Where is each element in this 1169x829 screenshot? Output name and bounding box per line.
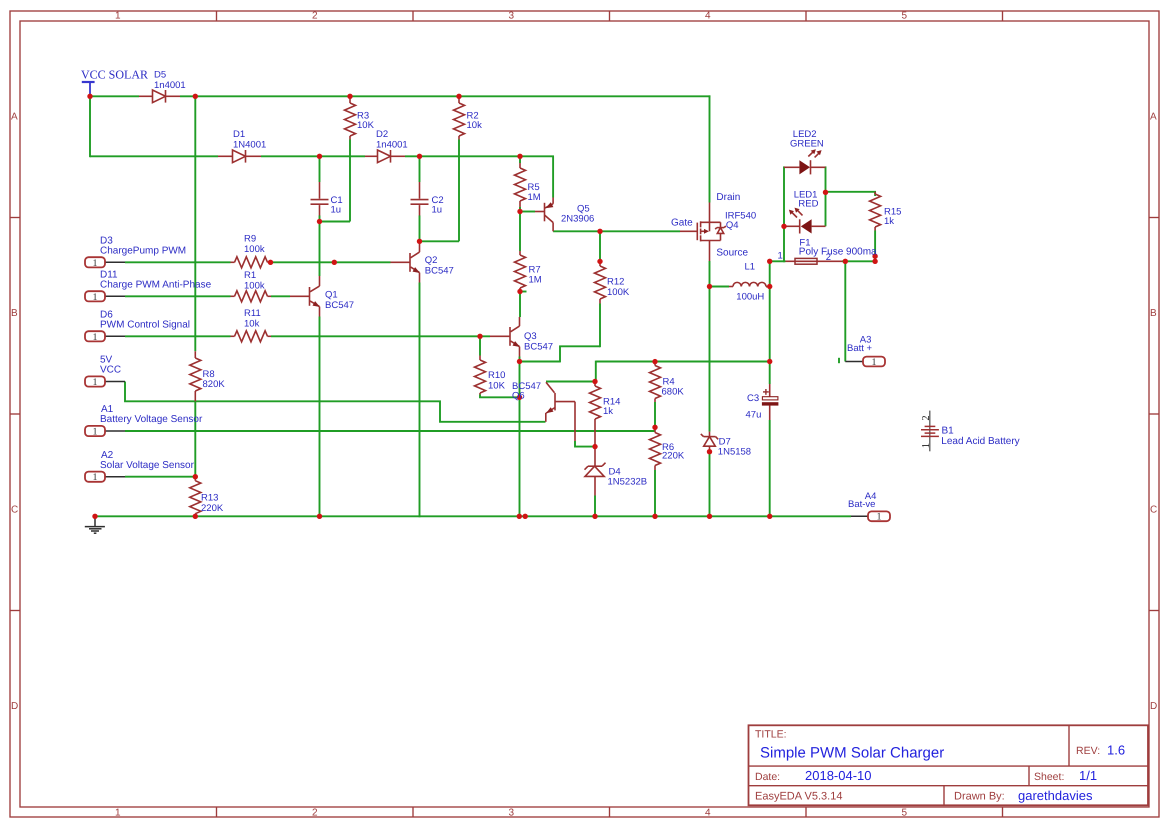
transistor Q2	[391, 241, 421, 282]
transistor Q3	[490, 317, 520, 357]
svg-text:R9: R9	[244, 234, 256, 245]
wire A1 run	[125, 430, 655, 432]
label C2	[432, 195, 444, 216]
LED1 red	[784, 208, 826, 234]
svg-text:1M: 1M	[528, 192, 541, 203]
label R15	[884, 206, 901, 227]
svg-text:5: 5	[902, 10, 908, 21]
wire Q6 base link	[575, 441, 595, 447]
label R11	[244, 308, 261, 329]
node R5 bottom Q5 base	[517, 209, 522, 214]
label Gate	[671, 217, 693, 228]
resistor R13	[190, 477, 201, 517]
wire fuse rail right	[842, 260, 875, 262]
resistor R11	[231, 331, 272, 342]
node D7 bottom	[707, 449, 712, 454]
svg-text:RED: RED	[798, 199, 818, 210]
wire second rail seg2	[261, 155, 365, 157]
node rail D4	[592, 514, 597, 519]
svg-text:10K: 10K	[357, 120, 375, 131]
label R7	[529, 265, 542, 286]
svg-text:D5: D5	[154, 70, 166, 81]
wire R14 top vertical	[595, 361, 597, 382]
svg-text:Drain: Drain	[716, 192, 740, 203]
net label VCC SOLAR	[81, 68, 148, 82]
wire R10 stub top	[479, 336, 481, 355]
resistor R12	[595, 262, 606, 304]
capacitor C3 polarized	[762, 384, 779, 420]
port A2	[85, 472, 125, 484]
svg-text:1/1: 1/1	[1079, 768, 1097, 783]
node R9 out	[268, 260, 273, 265]
svg-text:1M: 1M	[529, 275, 542, 286]
label R9	[244, 234, 265, 256]
node R15 bottom upper	[872, 254, 877, 259]
wire R7 stub	[520, 291, 527, 293]
capacitor C1	[311, 182, 329, 222]
label A4 port	[848, 491, 876, 510]
label C1	[331, 195, 343, 216]
port A3	[845, 357, 885, 368]
svg-text:1: 1	[93, 377, 98, 388]
port D11	[85, 291, 125, 303]
transistor Q1	[290, 276, 320, 317]
node R4 top	[652, 359, 657, 364]
pin number B1-1	[921, 443, 932, 448]
wire D7 bottom	[709, 454, 711, 517]
node rail R13	[193, 514, 198, 519]
node LED1 left	[781, 224, 786, 229]
node R5 top	[517, 154, 522, 159]
svg-text:100k: 100k	[244, 244, 265, 255]
wire source column to D7	[709, 287, 711, 432]
svg-text:1n4001: 1n4001	[376, 139, 408, 150]
TITLEBLOCK	[749, 725, 1149, 805]
label C3	[746, 393, 762, 421]
wire node row y361	[596, 361, 770, 363]
wire Q3 emitter column	[519, 357, 521, 518]
resistor R9	[231, 257, 271, 268]
svg-text:1N5158: 1N5158	[718, 447, 751, 458]
wire R6 bottom	[654, 470, 656, 517]
wire Q4 source	[709, 261, 711, 287]
svg-text:2: 2	[312, 807, 318, 818]
resistor R6	[650, 427, 661, 470]
resistor R8	[190, 351, 201, 401]
wire second rail seg3	[405, 155, 554, 157]
svg-text:garethdavies: garethdavies	[1018, 788, 1093, 803]
svg-text:3: 3	[509, 807, 515, 818]
svg-text:GREEN: GREEN	[790, 139, 824, 150]
svg-text:820K: 820K	[203, 379, 226, 390]
svg-text:4: 4	[705, 10, 711, 21]
node R2 top	[456, 94, 461, 99]
resistor R2	[454, 96, 465, 139]
capacitor C2	[411, 182, 429, 241]
svg-text:D: D	[11, 701, 18, 712]
wire R2 column	[458, 140, 460, 242]
svg-text:REV:: REV:	[1076, 745, 1100, 757]
wire A3 pin tick	[838, 358, 840, 363]
wire Q5 base link	[520, 211, 535, 213]
svg-text:VCC: VCC	[100, 365, 121, 376]
wire x195 column upper	[194, 96, 196, 351]
wire LED left column	[783, 166, 785, 262]
pin number F1-1	[778, 251, 783, 262]
label D7	[718, 436, 751, 457]
wire R12 bottom	[599, 304, 601, 348]
wire source to L1	[710, 286, 730, 288]
port A4	[851, 511, 890, 522]
svg-text:Poly Fuse 900ma: Poly Fuse 900ma	[799, 247, 877, 258]
svg-text:Q2: Q2	[425, 255, 438, 266]
label R8	[203, 369, 226, 390]
svg-text:BC547: BC547	[425, 266, 454, 277]
node R3 top	[347, 94, 352, 99]
zener diode D7	[701, 432, 718, 454]
label A2 port	[100, 450, 195, 471]
resistor R7	[515, 251, 526, 292]
svg-text:5: 5	[902, 807, 908, 818]
port D3	[85, 257, 125, 269]
svg-text:B: B	[11, 308, 18, 319]
wire R12 jog horizontal	[559, 345, 600, 347]
label LED2	[790, 129, 824, 150]
node Q3 emitter	[517, 359, 522, 364]
wire Q6 collector run	[546, 381, 596, 383]
wire fuse rail left	[770, 260, 786, 262]
svg-text:1: 1	[877, 512, 882, 523]
svg-text:R13: R13	[201, 493, 218, 504]
svg-text:Bat-ve: Bat-ve	[848, 499, 875, 510]
node fuse left	[767, 259, 772, 264]
node D3 row mid	[332, 260, 337, 265]
node rail C3	[767, 514, 772, 519]
svg-text:1: 1	[115, 807, 121, 818]
label R5	[528, 182, 541, 203]
label R3	[357, 110, 375, 131]
wire L1 right lead	[766, 286, 770, 288]
svg-text:Simple PWM Solar Charger: Simple PWM Solar Charger	[760, 745, 944, 762]
svg-text:2: 2	[312, 10, 318, 21]
svg-text:1: 1	[778, 251, 783, 262]
svg-text:PWM Control Signal: PWM Control Signal	[100, 320, 190, 331]
resistor R3	[345, 96, 356, 139]
node C1 top	[317, 154, 322, 159]
node LED2 right	[823, 190, 828, 195]
node rail x519	[517, 514, 522, 519]
transistor Q5	[535, 198, 553, 232]
svg-text:Q6: Q6	[512, 391, 525, 402]
label R2	[467, 110, 483, 131]
svg-text:C: C	[1150, 505, 1157, 516]
svg-text:Gate: Gate	[671, 217, 693, 228]
svg-text:1u: 1u	[331, 205, 342, 216]
label Q1	[325, 290, 354, 312]
label D3 port	[100, 236, 186, 257]
wire R15 bottom	[874, 231, 876, 262]
label D4	[608, 467, 648, 488]
svg-text:TITLE:: TITLE:	[755, 729, 787, 741]
wire A2 run	[125, 476, 195, 478]
resistor R15	[870, 192, 881, 231]
wire second rail seg1	[90, 155, 218, 157]
svg-text:B1: B1	[942, 425, 955, 436]
LED2 green	[784, 149, 826, 174]
wire top rail right	[180, 95, 710, 97]
svg-text:C3: C3	[747, 393, 759, 404]
wire x195 column lower	[194, 401, 196, 476]
wire bottom rail	[95, 515, 851, 517]
node R14 top	[592, 379, 597, 384]
wire top rail left	[90, 95, 139, 97]
svg-text:2018-04-10: 2018-04-10	[805, 768, 872, 783]
wire C1 link to R3	[320, 221, 351, 223]
svg-text:100K: 100K	[607, 287, 630, 298]
svg-text:1: 1	[93, 332, 98, 343]
label R6	[662, 442, 685, 462]
svg-text:47u: 47u	[746, 410, 762, 421]
port A1	[85, 426, 125, 438]
diode D5	[139, 90, 180, 103]
node C1 bottom	[317, 219, 322, 224]
node rail R6	[652, 514, 657, 519]
wire LED right column	[825, 166, 827, 226]
wire R12 jog vertical	[559, 346, 561, 362]
node R14 D4	[592, 444, 597, 449]
resistor R10	[475, 356, 486, 395]
label B1	[941, 425, 1019, 447]
label VCC port	[100, 355, 121, 376]
wire R5 bottom	[519, 207, 521, 212]
node rail x320	[317, 514, 322, 519]
svg-text:2: 2	[826, 252, 831, 263]
label R4	[662, 377, 685, 398]
svg-text:A: A	[11, 111, 18, 122]
svg-text:1.6: 1.6	[1107, 743, 1125, 758]
svg-text:1: 1	[921, 443, 932, 448]
resistor R5	[515, 163, 526, 207]
node VCC SOLAR junction	[87, 94, 92, 99]
node C2 top	[417, 154, 422, 159]
port D6	[85, 331, 125, 343]
svg-text:2: 2	[921, 415, 932, 420]
node R12 top pin	[597, 259, 602, 264]
wire VCC 5V run	[125, 382, 546, 422]
zener diode D4	[585, 447, 606, 496]
power flag VCC SOLAR	[82, 82, 95, 96]
svg-text:Q3: Q3	[524, 331, 537, 342]
wire R5 top lead	[519, 156, 521, 163]
wire Q1 emitter column	[319, 317, 321, 518]
svg-text:10k: 10k	[467, 120, 483, 131]
svg-text:Q4: Q4	[726, 220, 739, 231]
wire C1 bottom to Q1 collector	[319, 222, 321, 277]
node rail x709	[707, 514, 712, 519]
wire R10 bottom corner	[480, 395, 520, 398]
svg-text:A: A	[1150, 111, 1157, 122]
svg-text:1N5232B: 1N5232B	[608, 477, 648, 488]
svg-text:1: 1	[93, 472, 98, 483]
svg-text:100k: 100k	[244, 280, 265, 291]
node C2 bottom Q2 collector	[417, 239, 422, 244]
pin number F1-2	[826, 252, 831, 263]
svg-text:1k: 1k	[884, 216, 894, 227]
wire D4 bottom	[594, 496, 596, 518]
resistor R1	[231, 291, 272, 302]
resistor R4	[650, 362, 661, 402]
svg-text:10k: 10k	[244, 318, 260, 329]
svg-text:D: D	[1150, 701, 1157, 712]
svg-text:BC547: BC547	[524, 342, 553, 353]
wire Q3 emitter to jog	[520, 361, 561, 363]
svg-text:EasyEDA V5.3.14: EasyEDA V5.3.14	[755, 791, 842, 803]
node C3 top	[767, 359, 772, 364]
svg-text:Source: Source	[716, 248, 748, 259]
wire R15 top run	[826, 191, 877, 193]
svg-text:Battery Voltage Sensor: Battery Voltage Sensor	[100, 414, 203, 425]
wire R12 top lead	[599, 231, 601, 261]
wire R3 column	[349, 140, 351, 222]
node rail x525	[523, 514, 528, 519]
ground symbol	[85, 517, 105, 533]
svg-text:C: C	[11, 505, 18, 516]
svg-text:Sheet:: Sheet:	[1034, 771, 1064, 783]
wire D11 row seg2	[271, 295, 290, 297]
wire C3 column upper	[769, 261, 771, 384]
label D11 port	[100, 270, 212, 291]
diode D1	[218, 150, 261, 163]
svg-text:2N3906: 2N3906	[561, 214, 594, 225]
svg-text:1: 1	[115, 10, 121, 21]
node Q4 source junction	[707, 284, 712, 289]
svg-text:B: B	[1150, 308, 1157, 319]
svg-text:ChargePump PWM: ChargePump PWM	[100, 246, 186, 257]
PARTS	[82, 82, 939, 533]
label Q5	[561, 204, 594, 225]
label F1	[799, 238, 877, 258]
node R10 bottom	[517, 395, 522, 400]
svg-text:Date:: Date:	[755, 771, 780, 783]
svg-text:220K: 220K	[201, 503, 224, 514]
wire D6 row seg2	[271, 335, 490, 337]
svg-text:220K: 220K	[662, 451, 685, 462]
svg-text:1k: 1k	[603, 406, 613, 417]
node L1 right	[767, 284, 772, 289]
wire drain column	[709, 95, 711, 202]
svg-text:Charge PWM Anti-Phase: Charge PWM Anti-Phase	[100, 280, 212, 291]
label D2	[376, 129, 408, 150]
label L1	[736, 262, 764, 303]
wire gate row	[553, 230, 680, 232]
label Q3	[524, 331, 553, 353]
wire D6 row seg1	[125, 335, 231, 337]
wire D3 row seg1	[125, 261, 231, 263]
node A2 R13	[193, 474, 198, 479]
transistor Q6	[546, 382, 575, 441]
wire Q2 emitter column	[419, 283, 421, 518]
svg-text:4: 4	[705, 807, 711, 818]
svg-text:3: 3	[509, 10, 515, 21]
svg-text:Solar Voltage Sensor: Solar Voltage Sensor	[100, 460, 195, 471]
label A3 port	[847, 335, 873, 354]
battery B1	[921, 411, 939, 452]
fuse F1	[786, 258, 843, 264]
node R7 bottom	[517, 289, 522, 294]
label LED1	[794, 189, 819, 209]
wire VCC drop	[89, 95, 91, 157]
wire x554 drop to Q5 emitter	[552, 156, 554, 197]
node rail ground	[92, 514, 97, 519]
svg-text:Lead Acid Battery: Lead Acid Battery	[941, 436, 1019, 447]
svg-text:R12: R12	[607, 277, 624, 288]
wire R5-R7 mid	[519, 212, 521, 252]
wire R15 top lead	[874, 192, 876, 196]
wire D11 row seg1	[125, 295, 231, 297]
svg-text:Drawn By:: Drawn By:	[954, 791, 1005, 803]
label R10	[488, 370, 506, 391]
label R12	[607, 277, 630, 299]
label Drain	[716, 192, 740, 203]
resistor R14	[590, 382, 601, 447]
mosfet Q4 IRF540	[680, 203, 726, 262]
wire A3 column	[844, 261, 846, 361]
port VCC 5V	[85, 376, 125, 388]
node R15 bottom lower	[872, 259, 877, 264]
label D5	[154, 70, 186, 92]
diode D2	[365, 150, 405, 163]
node top rail x195	[193, 94, 198, 99]
svg-text:1u: 1u	[432, 205, 443, 216]
node R10 top	[477, 334, 482, 339]
svg-text:1N4001: 1N4001	[233, 139, 266, 150]
label R1	[244, 270, 265, 291]
label R14	[603, 397, 620, 418]
node gate R12	[597, 229, 602, 234]
label D6 port	[100, 310, 190, 331]
node fuse right A3	[843, 259, 848, 264]
svg-text:Q1: Q1	[325, 290, 338, 301]
svg-text:100uH: 100uH	[736, 291, 764, 302]
label Q6	[512, 381, 541, 402]
svg-text:680K: 680K	[662, 386, 685, 397]
svg-text:1n4001: 1n4001	[154, 80, 186, 91]
wire C2 top	[419, 156, 421, 182]
svg-text:L1: L1	[745, 262, 756, 273]
svg-text:BC547: BC547	[325, 300, 354, 311]
node R4 R6	[652, 425, 657, 430]
svg-text:10K: 10K	[488, 380, 506, 391]
pin number B1-2	[921, 415, 932, 420]
wire R7 to Q3 collector	[519, 292, 521, 318]
wire D3 row seg2	[271, 261, 391, 263]
wire C2 link to R2	[420, 240, 460, 242]
svg-text:1: 1	[872, 357, 877, 368]
wire C3 column lower	[769, 420, 771, 517]
label A1 port	[100, 404, 203, 425]
svg-text:1: 1	[93, 292, 98, 303]
svg-text:1: 1	[93, 258, 98, 269]
label Source	[716, 248, 748, 259]
svg-text:1: 1	[93, 427, 98, 438]
label Q2	[425, 255, 454, 277]
wire R4-R6 mid	[654, 402, 656, 427]
label Q4	[725, 210, 756, 231]
inductor L1	[729, 282, 770, 286]
svg-text:Batt +: Batt +	[847, 343, 873, 354]
svg-text:VCC SOLAR: VCC SOLAR	[81, 68, 148, 82]
label D1	[233, 129, 266, 150]
